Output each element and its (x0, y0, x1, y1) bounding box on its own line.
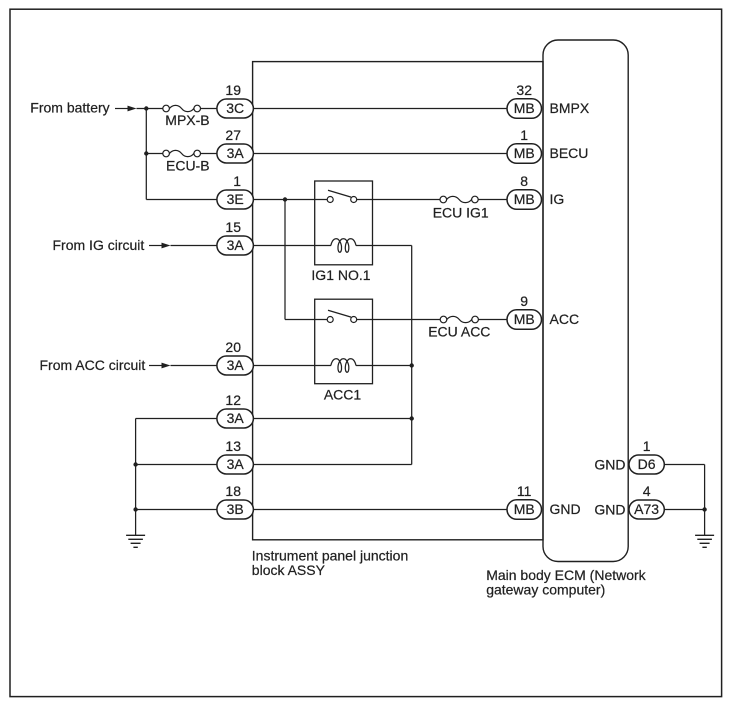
arrow from battery (115, 106, 137, 112)
connector terminal 3C (217, 99, 254, 118)
svg-text:3E: 3E (227, 191, 244, 207)
svg-text:3A: 3A (227, 410, 245, 426)
svg-text:GND: GND (594, 457, 625, 473)
svg-text:D6: D6 (638, 456, 656, 472)
label caption junction block line2 (252, 562, 326, 578)
svg-text:From battery: From battery (30, 100, 109, 116)
connector terminal 3A 27 (217, 144, 254, 163)
label ECU-B (166, 158, 210, 174)
label GND at MB (550, 501, 581, 517)
svg-text:GND: GND (550, 501, 581, 517)
svg-text:15: 15 (225, 219, 241, 235)
wire ground bus to 3A-13 (136, 464, 217, 466)
svg-text:11: 11 (517, 483, 532, 499)
svg-text:3A: 3A (227, 456, 245, 472)
wire IG1 switch to fuse ECU IG1 (357, 199, 440, 201)
svg-text:Instrument panel junction: Instrument panel junction (252, 547, 408, 563)
svg-text:12: 12 (225, 392, 241, 408)
junction battery bus top (144, 106, 148, 110)
wire IG1 coil to right bus (356, 245, 412, 247)
wire 3E to IG1 relay switch (254, 199, 328, 201)
svg-text:MB: MB (514, 311, 535, 327)
wire battery bus vertical (145, 109, 147, 200)
pin number 1 (MB BECU) (520, 127, 528, 143)
connector terminal 3A 20 (217, 356, 254, 375)
arrow from ACC circuit (149, 363, 171, 369)
svg-text:3B: 3B (227, 501, 244, 517)
wire 3A to MB BECU (254, 153, 508, 155)
wire ACC circuit to 3A (171, 365, 218, 367)
connector terminal 3A 13 (217, 455, 254, 474)
relay ACC1 box (315, 299, 373, 384)
svg-text:ECU-B: ECU-B (166, 158, 210, 174)
label ACC (550, 311, 580, 327)
svg-text:MB: MB (514, 100, 535, 116)
instrument panel junction block ASSY box (253, 62, 543, 540)
junction right bus at ACC1 coil (410, 363, 414, 367)
svg-text:3A: 3A (227, 145, 245, 161)
junction ground bus at 3B (133, 507, 137, 511)
label GND at D6 (594, 457, 625, 473)
svg-text:GND: GND (594, 502, 625, 518)
wire 3A to IG1 coil (254, 245, 332, 247)
svg-text:8: 8 (520, 173, 528, 189)
svg-text:ACC: ACC (550, 311, 580, 327)
connector terminal D6 (629, 455, 664, 474)
wire 3B to MB GND (254, 509, 508, 511)
svg-text:3A: 3A (227, 237, 245, 253)
connector terminal A73 (629, 500, 664, 519)
label From IG circuit (53, 237, 145, 253)
pin number 8 (MB IG) (520, 173, 528, 189)
main body ECM box (543, 40, 628, 562)
ground symbol right (695, 535, 714, 547)
fuse ECU ACC (440, 316, 478, 323)
wire D6 to ground drop (664, 464, 704, 466)
pin number 19 (3C) (225, 82, 241, 98)
label IG1 NO.1 (311, 267, 370, 283)
relay coil ACC1 (331, 359, 356, 373)
label BECU (550, 145, 589, 161)
wire 3C to MB BMPX (254, 108, 508, 110)
label ACC1 (324, 387, 362, 403)
wire ground bus to 3A-12 (136, 418, 217, 420)
wire battery bus to fuse ECU-B (146, 153, 163, 155)
label MPX-B (165, 112, 209, 128)
svg-text:19: 19 (225, 82, 241, 98)
connector terminal MB 8 (507, 190, 542, 210)
connector terminal 3B 18 (217, 500, 254, 519)
svg-text:ACC1: ACC1 (324, 387, 362, 403)
svg-text:27: 27 (225, 127, 241, 143)
svg-text:MB: MB (514, 501, 535, 517)
svg-text:4: 4 (643, 483, 651, 499)
svg-text:MB: MB (514, 145, 535, 161)
connector terminal MB 11 (507, 500, 542, 520)
wire A73 to ground drop (664, 509, 704, 511)
pin number 12 (3A-12) (225, 392, 241, 408)
fuse ECU-B (163, 150, 201, 157)
label caption junction block line1 (252, 547, 408, 563)
svg-text:gateway computer): gateway computer) (486, 582, 605, 598)
wire fuse ECU ACC to MB ACC (478, 319, 507, 321)
junction ground drop at A73 (702, 507, 706, 511)
connector terminal 3E (217, 190, 254, 209)
svg-text:3A: 3A (227, 357, 245, 373)
svg-text:block ASSY: block ASSY (252, 562, 326, 578)
label From battery (30, 100, 109, 116)
svg-text:MPX-B: MPX-B (165, 112, 209, 128)
relay coil IG1 (331, 239, 356, 253)
svg-text:BMPX: BMPX (550, 100, 590, 116)
label BMPX (550, 100, 590, 116)
label caption ECM line1 (486, 567, 646, 583)
fuse ECU IG1 (440, 196, 478, 203)
pin number 18 (3B) (225, 483, 241, 499)
svg-text:1: 1 (233, 173, 241, 189)
wire ACC1 switch to fuse ECU ACC (357, 319, 441, 321)
wire right bus vertical (411, 246, 413, 465)
svg-text:ECU ACC: ECU ACC (428, 323, 490, 339)
connector terminal 3A 15 (217, 236, 254, 255)
svg-text:IG: IG (550, 191, 565, 207)
wire ACC1 switch feed (285, 319, 327, 321)
connector terminal MB 32 (507, 99, 542, 119)
wire 3E branch down to ACC1 switch (284, 200, 286, 320)
wire fuse ECU-B to 3A (201, 153, 218, 155)
wire IG circuit to 3A (171, 245, 218, 247)
pin number 1 (D6) (643, 438, 651, 454)
junction ground bus at 3A-13 (133, 462, 137, 466)
label IG (550, 191, 565, 207)
relay switch contact IG1 (327, 190, 357, 202)
pin number 9 (MB ACC) (520, 293, 528, 309)
wire 3A to ACC1 coil (254, 365, 332, 367)
svg-text:1: 1 (520, 127, 528, 143)
wire ACC1 coil to right bus (356, 365, 412, 367)
junction battery bus at ECU-B (144, 151, 148, 155)
pin number 11 (MB GND) (517, 483, 532, 499)
ground symbol left (126, 535, 145, 547)
svg-text:IG1 NO.1: IG1 NO.1 (311, 267, 370, 283)
wire battery bus to 3E (146, 199, 217, 201)
svg-text:9: 9 (520, 293, 528, 309)
pin number 4 (A73) (643, 483, 651, 499)
label caption ECM line2 (486, 582, 605, 598)
pin number 32 (MB BMPX) (516, 82, 532, 98)
wire 3A-12 to right bus (254, 418, 412, 420)
connector terminal MB 1 (507, 144, 542, 164)
label From ACC circuit (40, 357, 146, 373)
wire ground bus vertical (135, 419, 137, 536)
svg-text:20: 20 (225, 339, 241, 355)
svg-text:BECU: BECU (550, 145, 589, 161)
pin number 13 (3A-13) (225, 438, 241, 454)
svg-text:ECU IG1: ECU IG1 (433, 205, 489, 221)
wire fuse ECU IG1 to MB IG (478, 199, 507, 201)
svg-text:1: 1 (643, 438, 651, 454)
svg-text:MB: MB (514, 191, 535, 207)
fuse MPX-B (163, 105, 201, 112)
wire fuse MPX-B to 3C (201, 108, 218, 110)
wire ground drop vertical (704, 465, 706, 536)
svg-text:13: 13 (225, 438, 241, 454)
svg-text:3C: 3C (226, 100, 244, 116)
junction 3E branch (283, 197, 287, 201)
pin number 1 (3E) (233, 173, 241, 189)
relay switch contact ACC1 (327, 310, 357, 322)
pin number 15 (3A-15) (225, 219, 241, 235)
pin number 20 (3A-20) (225, 339, 241, 355)
wire 3A-13 to right bus (254, 464, 412, 466)
svg-text:From ACC circuit: From ACC circuit (40, 357, 146, 373)
arrow from IG circuit (149, 243, 171, 249)
junction right bus at 3A-12 (410, 416, 414, 420)
svg-text:Main body ECM (Network: Main body ECM (Network (486, 567, 646, 583)
pin number 27 (3A-27) (225, 127, 241, 143)
label GND at A73 (594, 502, 625, 518)
svg-text:18: 18 (225, 483, 241, 499)
wire ground bus to 3B (136, 509, 217, 511)
label ECU ACC (428, 323, 490, 339)
wire battery to fuse MPX-B (137, 108, 163, 110)
svg-text:32: 32 (516, 82, 532, 98)
connector terminal MB 9 (507, 310, 542, 330)
label ECU IG1 (433, 205, 489, 221)
svg-text:From IG circuit: From IG circuit (53, 237, 145, 253)
relay IG1 NO.1 box (315, 181, 373, 265)
svg-text:A73: A73 (634, 501, 659, 517)
connector terminal 3A 12 (217, 409, 254, 428)
